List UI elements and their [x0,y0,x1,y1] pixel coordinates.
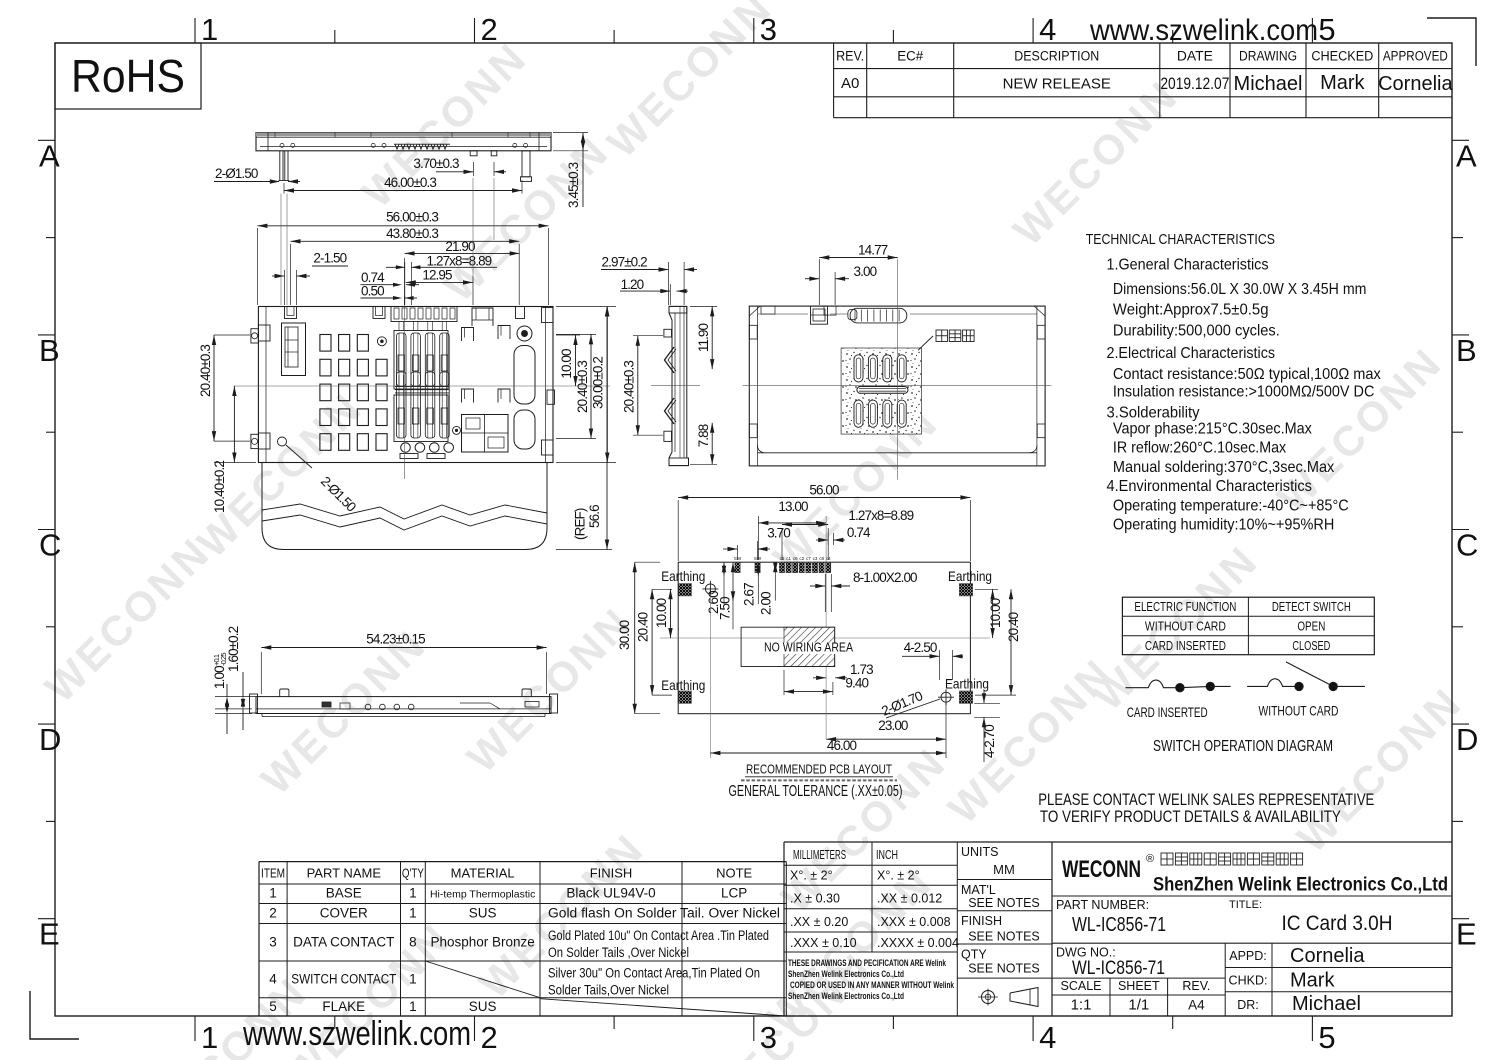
pcb pads row of 8 [779,556,831,573]
svg-text:Operating temperature:-40°C~+8: Operating temperature:-40°C~+85°C [1113,497,1349,514]
svg-text:WITHOUT CARD: WITHOUT CARD [1259,703,1339,719]
svg-text:Earthing: Earthing [661,568,705,584]
svg-text:COPIED OR USED IN ANY MANNER W: COPIED OR USED IN ANY MANNER WITHOUT Wel… [790,980,954,991]
bottom view centerlines [743,259,1052,480]
svg-text:WECONN: WECONN [1062,856,1141,883]
plan view small brackets right [462,326,511,403]
card outline below plan view [262,463,547,550]
svg-text:SEE NOTES: SEE NOTES [968,896,1040,910]
svg-text:.XXXX ± 0.004: .XXXX ± 0.004 [877,936,959,950]
svg-text:CLOSED: CLOSED [1292,638,1330,653]
front view solder stubs [470,151,497,156]
svg-text:A: A [39,138,60,173]
svg-text:5: 5 [1318,1020,1335,1055]
dimension 12.95 plan [406,267,473,305]
pcb earthing labels [661,568,992,693]
dimension 20.40 pcb right [975,589,1021,695]
svg-text:2.67: 2.67 [742,583,757,606]
svg-text:B: B [1456,333,1477,368]
plan view pivot circle [517,326,532,341]
svg-text:OPEN: OPEN [1297,619,1325,634]
svg-text:FINISH: FINISH [590,866,633,881]
svg-text:NO WIRING AREA: NO WIRING AREA [764,640,853,655]
front view contact teeth [394,144,450,149]
svg-text:3: 3 [760,1020,777,1055]
svg-text:GENERAL TOLERANCE (.XX±0.05): GENERAL TOLERANCE (.XX±0.05) [729,783,903,800]
svg-text:1: 1 [409,972,417,987]
svg-text:5: 5 [1318,12,1335,47]
svg-text:LCP: LCP [721,886,747,901]
plan view upper contact group [394,322,449,390]
svg-text:c8: c8 [819,556,824,561]
dimension 14.77 bottom view [819,243,897,306]
dimension 3.00 bottom view [805,264,877,305]
svg-text:Earthing: Earthing [945,676,989,692]
svg-text:ShenZhen Welink Electronics Co: ShenZhen Welink Electronics Co.,Ltd [788,969,904,980]
pcb layout centerlines [660,523,990,693]
svg-text:ShenZhen Welink Electronics Co: ShenZhen Welink Electronics Co.,Ltd [788,991,904,1002]
dimension 43.80+-0.3 plan [291,226,520,305]
svg-text:X°. ± 2°: X°. ± 2° [790,869,833,883]
svg-text:3.70±0.3: 3.70±0.3 [413,156,459,171]
svg-text:RoHS: RoHS [71,50,185,102]
plan view lower contact group [394,372,449,442]
dimension 20.40+-0.3 plan left [198,335,250,441]
svg-text:c3: c3 [813,556,818,561]
svg-text:ELECTRIC FUNCTION: ELECTRIC FUNCTION [1134,599,1236,614]
svg-text:Durability:500,000 cycles.: Durability:500,000 cycles. [1113,323,1280,340]
plan view center contact band [395,387,449,393]
svg-text:1: 1 [201,1020,218,1055]
dimension 10.00 pcb left [654,589,673,638]
bottom view outline [749,306,1045,466]
dimension 0.74 pcb [816,525,871,545]
dimension 10.40+-0.2 plan left [212,386,256,513]
weconn logo [1062,853,1448,896]
svg-text:Earthing: Earthing [948,568,992,584]
svg-text:1: 1 [409,999,417,1014]
dimension 13.00 pcb [758,499,826,560]
dimension 30.00+-0.2 plan right [556,307,616,463]
dimension 30.00 pcb left [617,562,660,714]
pcb position symbols [702,581,954,705]
svg-text:1: 1 [409,886,417,901]
side view contact springs [665,347,677,424]
svg-text:1.20: 1.20 [621,277,644,292]
svg-text:20.40: 20.40 [636,612,651,642]
svg-text:MAT'L: MAT'L [961,883,996,897]
svg-text:2-Ø1.50: 2-Ø1.50 [318,474,359,515]
svg-text:.XXX ± 0.10: .XXX ± 0.10 [790,936,857,950]
svg-text:Gold flash On Solder Tail. Ove: Gold flash On Solder Tail. Over Nickel [548,906,780,921]
svg-text:APPROVED: APPROVED [1383,49,1448,64]
svg-text:3: 3 [760,12,777,47]
plan view square holes grid [320,335,387,451]
svg-text:RECOMMENDED PCB LAYOUT: RECOMMENDED PCB LAYOUT [746,762,892,777]
svg-text:30.00: 30.00 [617,620,632,650]
svg-text:c6: c6 [793,556,798,561]
svg-text:12.95: 12.95 [422,267,452,282]
bottom view top leg section [811,306,828,324]
svg-text:9.40: 9.40 [845,676,868,691]
switch symbol card inserted [1126,680,1231,692]
bottom view edge notches [749,306,1045,438]
svg-text:SEE NOTES: SEE NOTES [968,962,1040,976]
plan view bottom pin holes [400,443,454,459]
svg-text:7.88: 7.88 [696,424,711,447]
svg-text:1.60±0.2: 1.60±0.2 [226,626,241,672]
dimension 1.27x8=8.89 pcb [782,508,914,560]
svg-text:SWITCH CONTACT: SWITCH CONTACT [291,972,396,987]
units column text [961,845,1040,976]
copyright disclaimer text [788,958,954,1002]
svg-text:INCH: INCH [876,848,898,862]
svg-text:43.80±0.3: 43.80±0.3 [386,226,438,241]
svg-text:WL-IC856-71: WL-IC856-71 [1072,958,1165,979]
svg-text:1.27x8=8.89: 1.27x8=8.89 [427,254,492,269]
technical characteristics text [1086,231,1381,533]
svg-text:8: 8 [409,935,417,950]
svg-text:Cornelia: Cornelia [1378,73,1453,95]
svg-text:1.27x8=8.89: 1.27x8=8.89 [848,508,913,523]
svg-text:10.40±0.2: 10.40±0.2 [212,461,227,513]
svg-text:30.00±0.2: 30.00±0.2 [591,357,606,409]
svg-text:On Solder Tails ,Over Nickel: On Solder Tails ,Over Nickel [548,945,689,960]
units column [957,842,1052,1016]
svg-text:D: D [39,722,61,757]
svg-text:56.00: 56.00 [809,483,839,498]
dimension 0.74 plan [361,270,420,287]
svg-text:SUS: SUS [469,906,497,921]
svg-text:ShenZhen Welink Electronics Co: ShenZhen Welink Electronics Co.,Ltd [1153,875,1448,896]
svg-text:CARD INSERTED: CARD INSERTED [1145,638,1226,653]
svg-text:2-1.50: 2-1.50 [313,251,346,266]
svg-text:c7: c7 [806,556,811,561]
svg-text:46.00±0.3: 46.00±0.3 [384,175,436,190]
dimension 9.40 pcb [784,670,868,695]
svg-text:56.00±0.3: 56.00±0.3 [386,210,438,225]
svg-text:QTY: QTY [961,948,987,962]
svg-text:Contact resistance:50Ω typical: Contact resistance:50Ω typical,100Ω max [1113,366,1381,383]
svg-text:2.00: 2.00 [759,592,774,615]
svg-text:54.23±0.15: 54.23±0.15 [366,632,425,647]
svg-text:WECONN: WECONN [458,598,641,781]
switch diagram labels [1127,703,1339,721]
bottom view mylar stipple area [841,348,921,434]
svg-text:2-Ø1.50: 2-Ø1.50 [215,166,258,181]
bottom view contact slots lower [854,400,906,427]
svg-text:FINISH: FINISH [961,914,1002,928]
dimension 4-2.50 pcb [902,640,963,680]
dimension 3.70 pcb [723,526,790,561]
svg-text:®: ® [1146,853,1154,865]
svg-text:WECONN: WECONN [353,33,536,216]
svg-text:SHEET: SHEET [1118,979,1160,993]
svg-text:3.00: 3.00 [854,264,877,279]
dimension 10.00 pcb right [975,589,1003,638]
svg-text:Michael: Michael [1292,993,1361,1015]
svg-text:4-2.50: 4-2.50 [904,640,937,655]
svg-text:1.00: 1.00 [212,666,227,689]
svg-text:Gold Plated 10u" On Contact Ar: Gold Plated 10u" On Contact Area .Tin Pl… [548,928,769,943]
svg-text:B: B [39,333,60,368]
svg-text:REV.: REV. [1182,979,1210,993]
side view left tabs [664,329,672,441]
svg-text:Mark: Mark [1320,72,1365,94]
svg-text:A0: A0 [841,75,859,92]
svg-text:Manual soldering:370°C,3sec.Ma: Manual soldering:370°C,3sec.Max [1113,459,1334,476]
svg-text:Weight:Approx7.5±0.5g: Weight:Approx7.5±0.5g [1113,302,1269,319]
svg-text:Dimensions:56.0L X 30.0W X 3.4: Dimensions:56.0L X 30.0W X 3.45H mm [1113,281,1367,298]
plan view top right latch parts [472,308,493,326]
svg-text:.XX ± 0.012: .XX ± 0.012 [877,892,942,906]
svg-text:SEE NOTES: SEE NOTES [968,930,1040,944]
plan view mount ears [251,308,555,456]
parts table text [261,866,780,1015]
svg-text:D: D [1456,722,1478,757]
dimension 3.70+-0.3 front [413,156,506,176]
svg-text:MATERIAL: MATERIAL [451,866,515,881]
plan view small index circle [377,337,386,346]
svg-text:(REF): (REF) [573,508,588,540]
svg-text:2: 2 [481,1020,498,1055]
svg-text:FLAKE: FLAKE [322,999,365,1014]
svg-text:Operating humidity:10%~+95%RH: Operating humidity:10%~+95%RH [1113,517,1334,534]
svg-text:www.szwelink.com: www.szwelink.com [1089,14,1318,47]
dimension 2.97+-0.2 side view [601,255,697,306]
svg-text:CARD INSERTED: CARD INSERTED [1127,704,1208,720]
svg-text:10.00: 10.00 [559,349,574,379]
svg-text:10.00: 10.00 [988,598,1003,628]
svg-text:46.00: 46.00 [827,738,857,753]
svg-text:1/1: 1/1 [1128,997,1149,1014]
extension lines from front view to plan view [281,178,494,305]
svg-text:BASE: BASE [326,886,362,901]
dimension 20.40+-0.3 side view [622,336,664,436]
mylar label leader [918,330,974,350]
svg-text:DR:: DR: [1237,998,1259,1012]
dimension 1.60+-0.2 long side view [215,626,256,730]
svg-text:Mark: Mark [1290,970,1335,992]
dimension 0.50 plan [361,284,418,301]
dwg no cell [1056,946,1165,980]
svg-text:E: E [39,917,60,952]
svg-text:DRAWING: DRAWING [1239,49,1297,64]
dimension 2-O1.50 front [214,166,300,184]
svg-text:56.6: 56.6 [587,505,602,528]
dimension 8-1.00X2.00 pcb [810,570,917,612]
svg-text:SW: SW [754,556,762,561]
dimension 46.00 pcb [710,594,946,758]
svg-text:UNITS: UNITS [961,845,999,859]
svg-text:THESE DRAWINGS AND PECIFICATIO: THESE DRAWINGS AND PECIFICATION ARE Weli… [788,958,946,969]
svg-text:4: 4 [1039,12,1056,47]
svg-text:TITLE:: TITLE: [1229,899,1262,911]
svg-text:4: 4 [1039,1020,1056,1055]
svg-text:2.97±0.2: 2.97±0.2 [602,255,648,270]
dimension 56.00 pcb [678,483,970,562]
svg-text:ITEM: ITEM [261,866,285,881]
svg-text:8-1.00X2.00: 8-1.00X2.00 [853,570,917,585]
plan view right slots [514,346,535,450]
svg-text:SCALE: SCALE [1061,979,1102,993]
svg-text:Q'TY: Q'TY [402,866,424,881]
svg-text:DATA CONTACT: DATA CONTACT [293,935,394,950]
part number cell [1056,898,1166,936]
svg-text:1:1: 1:1 [1071,997,1092,1014]
bottom view middle bar [857,387,908,394]
dimension 20.40+-0.3 plan right [556,334,596,438]
svg-text:CHECKED: CHECKED [1311,49,1373,64]
svg-text:C: C [1456,528,1478,563]
dimension 21.90 plan [405,239,520,305]
svg-text:COVER: COVER [320,906,368,921]
svg-text:NOTE: NOTE [716,866,752,881]
svg-text:MM: MM [993,862,1015,877]
svg-text:Earthing: Earthing [661,677,705,693]
svg-text:Insulation resistance:>1000MΩ/: Insulation resistance:>1000MΩ/500V DC [1113,383,1375,400]
bottom view small tab [848,310,857,320]
svg-text:E: E [1456,917,1477,952]
plan view top pin comb [391,307,457,322]
front view left legs [279,151,290,181]
RoHS logo box [55,43,201,109]
svg-text:1: 1 [269,886,277,901]
svg-text:Phosphor Bronze: Phosphor Bronze [430,935,534,950]
plan view centerlines [234,296,611,479]
svg-text:0.74: 0.74 [847,525,871,540]
svg-text:C: C [39,528,61,563]
svg-text:14.77: 14.77 [858,243,888,258]
dimension 1.73 pcb [813,662,873,680]
svg-text:3.70: 3.70 [767,526,790,541]
dimension 1.00 long side view [212,653,252,734]
svg-text:PART NAME: PART NAME [307,866,382,881]
dimension 4-2.70 pcb [974,690,1000,762]
svg-text:1.General Characteristics: 1.General Characteristics [1107,257,1269,274]
callout 2-O1.70 pcb [879,688,940,719]
svg-text:Black UL94V-0: Black UL94V-0 [566,886,655,901]
svg-text:21.90: 21.90 [445,239,475,254]
svg-text:WECONN: WECONN [36,528,219,711]
revision table [834,43,1452,118]
svg-text:NEW RELEASE: NEW RELEASE [1003,76,1111,93]
svg-text:A4: A4 [1188,998,1205,1013]
svg-text:DETECT SWITCH: DETECT SWITCH [1272,599,1351,614]
title block grid [1052,896,1452,1016]
front view body [256,133,551,151]
detect switch table [1122,597,1374,655]
svg-text:IR reflow:260°C.10sec.Max: IR reflow:260°C.10sec.Max [1113,440,1286,457]
svg-text:TO VERIFY PRODUCT DETAILS & AV: TO VERIFY PRODUCT DETAILS & AVAILABILITY [1040,807,1341,826]
long side view top bumps [280,689,532,697]
svg-text:13.00: 13.00 [778,499,808,514]
svg-text:10.00: 10.00 [654,598,669,628]
third angle projection symbol [978,988,1038,1007]
dimension 1.20 side view [620,277,688,305]
long side view details [322,702,539,710]
svg-text:2.Electrical Characteristics: 2.Electrical Characteristics [1107,345,1276,362]
svg-text:DESCRIPTION: DESCRIPTION [1014,49,1099,64]
plan view switch block [453,415,509,453]
svg-text:20.40±0.3: 20.40±0.3 [622,361,637,413]
plan view outline [258,307,553,463]
tolerance table [784,842,1452,1016]
side view body [669,306,689,465]
long side view body [250,694,558,717]
dimension 2-1.50 plan [272,251,348,306]
svg-text:SW: SW [734,556,742,561]
svg-text:1: 1 [409,906,417,921]
svg-text:20.40±0.3: 20.40±0.3 [575,361,590,413]
svg-text:-0.25: -0.25 [219,653,228,666]
pcb earthing pads [678,584,972,704]
parts table diagonal lines [425,961,786,1016]
dimension 1.27x8=8.89 plan [386,254,497,306]
pcb small vertical dims 2.60 7.50 2.67 2.00 [706,562,778,629]
svg-text:IC Card 3.0H: IC Card 3.0H [1282,912,1393,935]
svg-text:11.90: 11.90 [696,323,711,352]
svg-text:WL-IC856-71: WL-IC856-71 [1072,914,1166,936]
dimension 7.88 side view [690,423,717,465]
dimension 20.40 pcb left [636,589,673,695]
tolerance table text [790,848,959,950]
dimension 54.23+-0.15 long side view [261,632,546,695]
svg-text:MILLIMETERS: MILLIMETERS [793,848,846,862]
svg-text:A: A [1456,138,1477,173]
bottom view contact slots upper [854,355,906,382]
parts list table [259,862,786,1016]
approval cells [1229,945,1366,1015]
svg-text:REV.: REV. [836,49,864,64]
svg-text:7.50: 7.50 [718,597,733,620]
pcb no wiring area [741,627,854,666]
svg-text:X°. ± 2°: X°. ± 2° [877,869,920,883]
plan view left slider block [282,323,306,376]
pcb layout outline [678,562,970,714]
svg-text:Hi-temp Thermoplastic: Hi-temp Thermoplastic [430,889,535,901]
svg-text:c2: c2 [799,556,804,561]
pcb SW pads [734,556,762,573]
svg-text:Solder Tails,Over Nickel: Solder Tails,Over Nickel [548,983,669,998]
svg-text:3.Solderability: 3.Solderability [1107,404,1200,421]
svg-text:.XXX ± 0.008: .XXX ± 0.008 [877,915,951,929]
svg-text:3.45±0.3: 3.45±0.3 [566,162,581,208]
svg-text:DATE: DATE [1177,49,1213,64]
switch symbol without card [1247,662,1365,691]
dimension 10.00 plan right [556,335,580,386]
svg-text:SWITCH OPERATION DIAGRAM: SWITCH OPERATION DIAGRAM [1153,738,1333,755]
svg-text:SUS: SUS [469,999,497,1014]
svg-text:www.szwelink.com: www.szwelink.com [242,1015,471,1053]
svg-text:c1: c1 [786,556,791,561]
svg-text:Cornelia: Cornelia [1290,945,1365,967]
svg-text:PART NUMBER:: PART NUMBER: [1056,898,1149,912]
dimension 46.00+-0.3 front [284,175,522,194]
svg-text:2: 2 [481,12,498,47]
svg-text:APPD:: APPD: [1229,949,1267,963]
title cell [1229,899,1393,935]
svg-text:Silver 30u" On Contact Area,Ti: Silver 30u" On Contact Area,Tin Plated O… [548,966,760,981]
dimension 11.90 side view [690,306,717,369]
svg-text:Vapor phase:215°C.30sec.Max: Vapor phase:215°C.30sec.Max [1113,420,1312,437]
svg-text:0.50: 0.50 [361,284,384,299]
svg-text:WITHOUT CARD: WITHOUT CARD [1145,619,1226,634]
svg-text:5: 5 [269,999,277,1014]
svg-text:20.40±0.3: 20.40±0.3 [198,345,213,397]
svg-text:.XX ± 0.20: .XX ± 0.20 [790,915,848,929]
svg-text:1: 1 [201,12,218,47]
